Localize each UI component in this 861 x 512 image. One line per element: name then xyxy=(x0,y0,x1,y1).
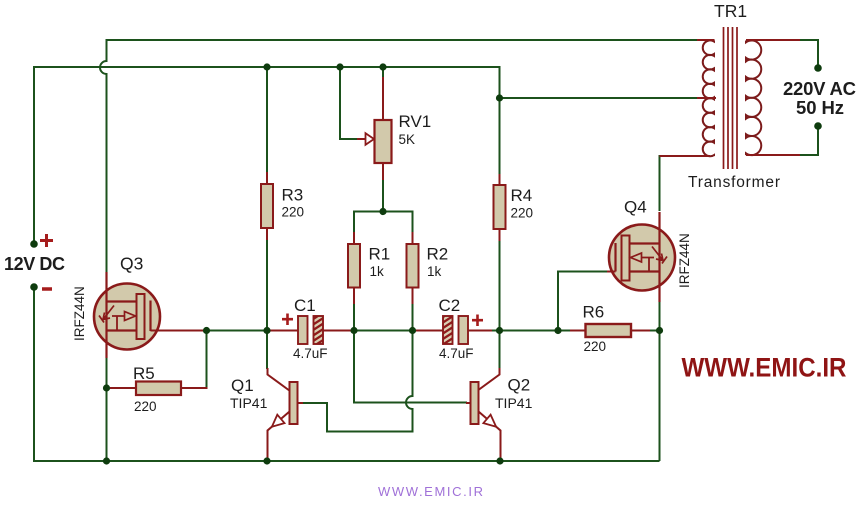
base bar xyxy=(290,382,298,424)
svg-text:4.7uF: 4.7uF xyxy=(439,346,474,361)
svg-text:50 Hz: 50 Hz xyxy=(796,97,844,118)
capacitor C1 xyxy=(267,314,354,345)
gate bar xyxy=(149,301,151,332)
pin right xyxy=(467,330,492,332)
secondary winding xyxy=(746,40,761,155)
svg-text:R4: R4 xyxy=(511,186,533,205)
node C1 right xyxy=(350,327,357,334)
wire R6 right to Q4 source line xyxy=(649,330,660,332)
wire transformer primary bottom to Q4 drain xyxy=(659,155,661,211)
node AC out top xyxy=(814,64,822,72)
svg-text:5K: 5K xyxy=(399,132,416,147)
resistor R2 xyxy=(407,232,419,304)
wire Q2 collector riser xyxy=(499,331,501,370)
plus mark xyxy=(472,315,483,327)
wire R3 bottom segment xyxy=(266,239,268,331)
wire Q4 source down to ground rail xyxy=(659,291,661,461)
source stub xyxy=(630,270,660,272)
svg-text:Q3: Q3 xyxy=(120,254,143,274)
svg-text:R3: R3 xyxy=(282,186,304,205)
capacitor C2 xyxy=(413,315,493,345)
svg-text:R2: R2 xyxy=(427,245,449,264)
svg-text:WWW.EMIC.IR: WWW.EMIC.IR xyxy=(682,353,847,383)
protection zener xyxy=(652,247,667,264)
svg-text:R1: R1 xyxy=(369,245,391,264)
battery minus mark xyxy=(42,287,52,291)
plate solid xyxy=(459,316,469,344)
drain-source through line xyxy=(105,272,107,358)
mosfet Q3 IRFZ44N xyxy=(94,272,207,358)
pin right xyxy=(322,330,354,332)
node center tap xyxy=(496,94,503,101)
svg-text:TIP41: TIP41 xyxy=(495,395,533,411)
collector lead xyxy=(477,368,500,391)
pin primary top xyxy=(697,39,715,41)
wire R3 top segment xyxy=(266,67,268,173)
svg-text:IRFZ44N: IRFZ44N xyxy=(72,286,87,341)
channel bar xyxy=(137,294,145,339)
plate solid xyxy=(298,316,308,344)
plate hatched xyxy=(314,316,324,344)
pin primary center tap xyxy=(697,97,716,99)
gate bar xyxy=(614,243,616,272)
node battery minus xyxy=(30,283,38,291)
svg-text:R5: R5 xyxy=(133,364,155,383)
emitter arrow xyxy=(272,415,285,427)
svg-text:Transformer: Transformer xyxy=(688,174,780,191)
potentiometer RV1 xyxy=(357,77,392,180)
substrate arrow xyxy=(641,258,654,272)
wire Q3 drain vertical with hop over +12V rail xyxy=(100,39,106,273)
resistor R3 xyxy=(261,172,273,240)
svg-text:1k: 1k xyxy=(427,264,442,279)
wire center tap feed xyxy=(499,66,501,175)
wire R5 right riser xyxy=(206,331,208,390)
node wiper feed xyxy=(336,63,343,70)
node ground Q3 xyxy=(103,457,110,464)
wire C2 right to Q4 gate node xyxy=(491,330,571,332)
svg-text:220: 220 xyxy=(584,339,607,354)
base pin xyxy=(298,402,304,404)
wire top rail +12V to transformer primary top xyxy=(107,39,699,41)
pin secondary bottom xyxy=(746,154,800,156)
wire transformer secondary top terminal xyxy=(799,40,818,68)
emitter lead xyxy=(268,412,290,460)
svg-text:TIP41: TIP41 xyxy=(230,395,268,411)
node R5 left xyxy=(103,384,110,391)
svg-text:220: 220 xyxy=(134,399,157,414)
wire C2 node down with hop to Q1 base xyxy=(303,331,413,432)
svg-text:C1: C1 xyxy=(294,296,316,315)
wire C1 node down to Q2 base xyxy=(354,331,467,403)
svg-text:Q2: Q2 xyxy=(508,376,531,395)
drain-source through line xyxy=(658,212,660,302)
wire R1 bottom riser xyxy=(353,303,355,331)
substrate arrow xyxy=(112,316,125,330)
core xyxy=(724,27,738,169)
drain stub xyxy=(107,300,138,302)
resistor R4 xyxy=(494,174,506,241)
plus mark xyxy=(282,314,293,326)
svg-text:R6: R6 xyxy=(583,303,605,322)
node ground Q1 xyxy=(263,457,270,464)
node R5 right xyxy=(203,327,210,334)
svg-text:4.7uF: 4.7uF xyxy=(293,346,328,361)
wire C1 right to C2 left node segment xyxy=(353,330,413,332)
wire RV1 top segment xyxy=(382,67,384,78)
svg-text:1k: 1k xyxy=(370,264,385,279)
node R3 top xyxy=(263,63,270,70)
wire Q3 source vertical to ground rail xyxy=(106,357,108,461)
base bar xyxy=(471,382,479,424)
node Q4 gate xyxy=(554,327,561,334)
transistor Q1 TIP41 xyxy=(268,368,304,459)
channel bar xyxy=(622,236,630,281)
svg-text:RV1: RV1 xyxy=(399,112,432,131)
svg-text:Q4: Q4 xyxy=(624,198,647,217)
node battery plus xyxy=(30,240,38,248)
transistor Q2 TIP41 xyxy=(466,368,501,459)
emitter lead xyxy=(479,412,501,460)
svg-text:12V DC: 12V DC xyxy=(4,254,65,274)
plate hatched xyxy=(443,316,453,344)
gate pin xyxy=(151,330,208,332)
primary winding xyxy=(703,40,714,156)
wire center tap horizontal xyxy=(500,97,701,99)
resistor R5 xyxy=(110,382,208,396)
node C2 left xyxy=(409,327,416,334)
wire transformer secondary bottom terminal xyxy=(799,126,818,155)
node AC out bottom xyxy=(814,122,822,130)
wire R4 bottom to C2 node xyxy=(499,240,501,331)
battery plus mark xyxy=(40,234,53,247)
wire Q1 collector riser xyxy=(266,331,268,370)
wire RV1 bottom branch to R1 R2 tops xyxy=(354,212,413,234)
svg-text:220: 220 xyxy=(282,205,305,220)
wiper arrow xyxy=(357,138,365,140)
resistor R6 xyxy=(570,324,650,337)
base pin xyxy=(466,402,471,404)
node C2 right xyxy=(496,327,503,334)
collector lead xyxy=(268,368,291,391)
source stub xyxy=(107,329,138,331)
svg-text:220: 220 xyxy=(511,206,534,221)
drain stub xyxy=(630,242,660,244)
protection zener xyxy=(99,306,114,323)
WIRES-GREEN xyxy=(34,39,818,461)
gate pin xyxy=(607,271,616,273)
pin secondary top xyxy=(746,39,800,41)
node ground Q2 xyxy=(496,457,503,464)
wire RV1 bottom segment xyxy=(382,179,384,212)
wire Q4 gate riser and horizontal xyxy=(558,272,608,331)
pin primary bottom xyxy=(660,155,711,157)
mosfet Q4 IRFZ44N xyxy=(607,212,675,302)
wire RV1 wiper feed xyxy=(340,67,358,139)
node RV1 bottom xyxy=(379,208,386,215)
wire battery minus to ground rail and bottom rail xyxy=(34,288,660,461)
pin left xyxy=(267,330,299,332)
wire Q3 gate node segment xyxy=(207,330,269,332)
wire R2 bottom riser xyxy=(412,303,414,331)
pin left xyxy=(413,330,445,332)
node RV1 top xyxy=(379,63,386,70)
node R6 right xyxy=(656,327,663,334)
svg-text:220V AC: 220V AC xyxy=(783,78,856,99)
svg-text:Q1: Q1 xyxy=(231,376,254,395)
wire battery plus drop xyxy=(33,66,35,243)
wire +12V rail horizontal xyxy=(34,66,500,68)
svg-text:C2: C2 xyxy=(439,296,461,315)
resistor R1 xyxy=(348,232,360,304)
svg-text:TR1: TR1 xyxy=(714,1,747,21)
node Q3 gate xyxy=(263,327,270,334)
emitter arrow xyxy=(483,415,496,427)
svg-text:IRFZ44N: IRFZ44N xyxy=(677,233,692,288)
transformer TR1 xyxy=(660,27,801,169)
